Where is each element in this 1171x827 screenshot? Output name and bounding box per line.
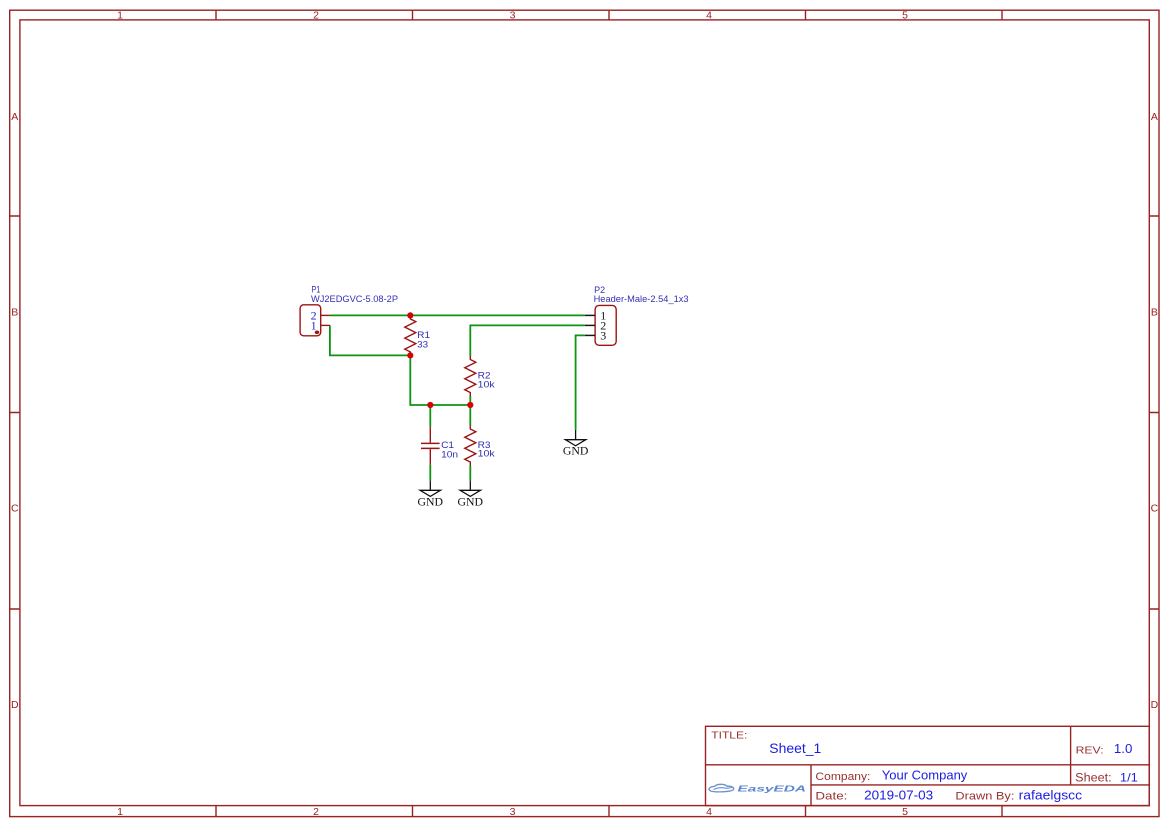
wire R3 bottom to GND: [469, 465, 471, 480]
svg-text:10k: 10k: [478, 379, 496, 389]
resistor R3: [465, 426, 476, 466]
P1 pin 2 stub: [321, 314, 330, 316]
svg-text:GND: GND: [563, 444, 589, 458]
svg-text:C1: C1: [441, 440, 454, 450]
svg-text:3: 3: [510, 806, 516, 818]
svg-text:C: C: [11, 503, 19, 515]
wire C1 bottom to GND: [429, 465, 431, 481]
svg-text:2019-07-03: 2019-07-03: [864, 787, 933, 802]
svg-text:1/1: 1/1: [1120, 771, 1138, 785]
P1 pin 1 stub: [321, 324, 330, 326]
ground under P2 pin 3: [563, 430, 589, 458]
svg-text:4: 4: [706, 806, 712, 818]
svg-text:5: 5: [902, 10, 908, 22]
svg-text:EasyEDA: EasyEDA: [738, 784, 807, 794]
svg-text:R1: R1: [417, 330, 430, 340]
junction dot at R1 bottom: [407, 352, 413, 358]
svg-text:D: D: [11, 699, 19, 711]
wire net P1.1 to R1 bottom: [330, 325, 410, 355]
svg-text:4: 4: [706, 10, 712, 22]
junction dot at R3 node: [467, 402, 473, 408]
resistor R2: [465, 356, 476, 396]
capacitor C1: [421, 427, 440, 465]
svg-text:3: 3: [510, 10, 516, 22]
connector P2 body: [595, 305, 616, 345]
resistor R1: [405, 315, 416, 355]
svg-text:Date:: Date:: [815, 791, 847, 803]
svg-text:Sheet_1: Sheet_1: [769, 740, 821, 756]
svg-text:3: 3: [600, 329, 606, 343]
svg-text:WJ2EDGVC-5.08-2P: WJ2EDGVC-5.08-2P: [311, 294, 398, 304]
svg-text:D: D: [1151, 699, 1159, 711]
svg-text:Drawn By:: Drawn By:: [955, 791, 1014, 803]
svg-text:1: 1: [117, 806, 123, 818]
svg-text:B: B: [1151, 306, 1158, 318]
svg-text:TITLE:: TITLE:: [711, 731, 747, 742]
svg-text:1.0: 1.0: [1114, 741, 1133, 756]
svg-text:Company:: Company:: [815, 771, 870, 783]
svg-text:GND: GND: [418, 494, 444, 508]
svg-text:1: 1: [311, 319, 317, 333]
svg-text:rafaelgscc: rafaelgscc: [1019, 787, 1083, 802]
svg-text:10k: 10k: [478, 449, 496, 459]
P2 pin 2 stub: [585, 324, 595, 326]
svg-text:C: C: [1151, 503, 1159, 515]
svg-text:A: A: [1151, 111, 1158, 123]
svg-text:33: 33: [417, 340, 428, 350]
P2 pin 1 stub: [585, 314, 595, 316]
svg-text:REV:: REV:: [1076, 744, 1104, 756]
wire node to R3 top: [469, 405, 471, 426]
wire R2 bottom to node: [469, 396, 471, 405]
svg-text:2: 2: [313, 806, 319, 818]
wire node to C1 top: [429, 405, 431, 427]
ground under C1: [418, 481, 444, 509]
svg-text:Your Company: Your Company: [882, 768, 968, 783]
svg-text:B: B: [11, 306, 18, 318]
svg-text:1: 1: [117, 10, 123, 22]
svg-text:Sheet:: Sheet:: [1075, 773, 1112, 785]
svg-text:Header-Male-2.54_1x3: Header-Male-2.54_1x3: [594, 294, 689, 304]
wire P2.3 to GND: [576, 335, 585, 429]
svg-text:10n: 10n: [441, 450, 458, 460]
wire net P2.2 to R2 top: [470, 325, 585, 356]
wire net R1 bottom to node row: [410, 355, 470, 405]
svg-text:GND: GND: [458, 494, 484, 508]
ground under R3: [458, 481, 484, 509]
wire net P1.2 to P2.1: [330, 314, 585, 316]
junction dot at R1 top: [407, 312, 413, 318]
svg-text:2: 2: [313, 10, 319, 22]
svg-text:P1: P1: [311, 285, 320, 295]
P1 pin 1 polarity dot: [315, 331, 320, 335]
P2 pin 3 stub: [585, 334, 595, 336]
svg-text:5: 5: [902, 806, 908, 818]
junction dot at C1 node: [427, 402, 433, 408]
svg-text:A: A: [11, 111, 18, 123]
connector P1 body: [300, 305, 321, 336]
